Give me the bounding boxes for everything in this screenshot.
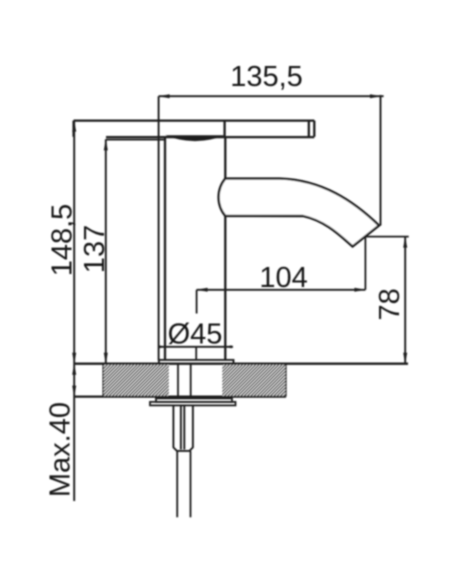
washer upper plate — [156, 398, 232, 402]
dimension Ø45 dim line — [158, 345, 233, 348]
countertop hatch left — [103, 365, 169, 396]
countertop right edge — [285, 364, 287, 397]
faucet body right edge (upper segment) — [224, 137, 226, 179]
countertop surface line — [74, 363, 408, 365]
dimension 78 extension line — [365, 236, 408, 238]
dimension Ø45 centre tick — [195, 347, 197, 360]
dimension 104 right extension — [364, 237, 366, 289]
dimension 104 dim line — [197, 288, 366, 292]
svg-text:78: 78 — [374, 288, 406, 320]
svg-text:148,5: 148,5 — [46, 204, 78, 277]
lever handle — [74, 121, 315, 138]
faucet body right edge (lower segment) — [224, 216, 226, 360]
supply pipe / threaded rod — [176, 451, 178, 517]
svg-text:Ø45: Ø45 — [168, 319, 223, 351]
countertop bottom line — [74, 395, 286, 397]
base plate — [159, 360, 234, 364]
dimension 148,5 dim line — [72, 121, 76, 364]
dimension 104 left extension (centre axis upper) — [196, 290, 198, 314]
svg-text:135,5: 135,5 — [230, 61, 303, 93]
threaded stud through counter — [177, 364, 179, 398]
spout — [219, 179, 379, 247]
dimension 137 extension line — [106, 139, 166, 141]
countertop hatch right — [222, 365, 286, 396]
dimension Max.40 dim line — [72, 364, 76, 501]
hex nut on stud — [173, 405, 193, 451]
collar (body top rim, dark band) — [165, 135, 225, 141]
svg-text:104: 104 — [259, 262, 307, 294]
washer lower plate — [150, 402, 236, 406]
countertop left edge — [102, 364, 104, 397]
svg-text:Max.40: Max.40 — [44, 402, 76, 497]
extension line right (from 135,5 down to spout tip) — [380, 95, 382, 226]
extension line left (from 135,5 down to base plate) — [158, 96, 160, 360]
dimension 78 dim line — [403, 237, 407, 364]
dimension 135,5 dim line — [159, 94, 384, 98]
faucet body left edge — [164, 137, 166, 359]
dimension 137 dim line — [104, 139, 108, 363]
svg-text:137: 137 — [79, 225, 111, 273]
